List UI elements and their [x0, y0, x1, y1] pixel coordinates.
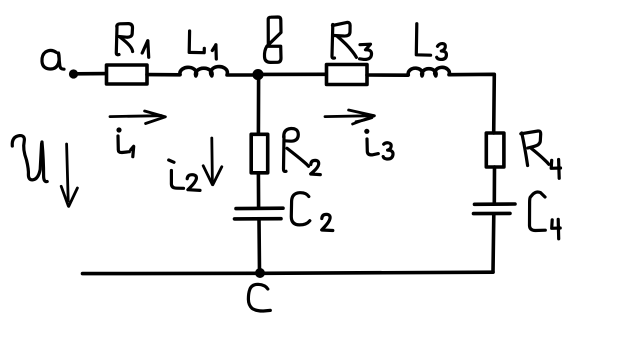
node C — [255, 268, 265, 278]
label R2 — [283, 136, 286, 171]
label L1 — [189, 31, 204, 53]
label L1 subscript 1 — [212, 45, 216, 51]
wire L3 to top right corner — [449, 74, 494, 133]
capacitor C2 — [236, 206, 283, 210]
node b — [252, 69, 263, 80]
label C (node) — [248, 284, 270, 311]
label i1 — [116, 127, 121, 132]
wire C2 to bottom — [257, 219, 261, 272]
label C2 — [291, 193, 310, 225]
resistor R4 — [486, 133, 504, 167]
wire L1 to node b — [227, 73, 254, 77]
wire R3 to L3 — [367, 73, 408, 77]
capacitor C4 — [475, 202, 516, 206]
label i3 — [364, 129, 369, 134]
wire R1 to L1 — [147, 73, 180, 77]
label a — [42, 50, 59, 69]
wire b to R3 — [262, 73, 326, 77]
label C2 subscript 2 — [322, 214, 333, 230]
resistor R2 — [251, 134, 268, 173]
label R3 — [332, 25, 335, 59]
label R1 — [116, 27, 119, 55]
wire b down to R2 — [257, 75, 261, 134]
label b — [264, 17, 281, 62]
label i2 — [169, 160, 174, 162]
inductor L3 — [408, 67, 449, 76]
label L3 — [416, 24, 430, 56]
label R1 subscript 1 — [142, 41, 147, 53]
wire a to R1 — [77, 72, 106, 76]
node a — [69, 69, 78, 78]
label L3 subscript 3 — [437, 44, 447, 60]
bottom wire — [83, 272, 494, 273]
wire R2 to C2 — [257, 173, 261, 208]
label C4 subscript 4 — [552, 220, 561, 229]
resistor R1 — [107, 65, 148, 84]
label C4 — [530, 192, 546, 231]
U arrow — [67, 144, 69, 201]
wire R4 to C4 — [492, 167, 496, 204]
label U — [12, 136, 41, 180]
label R2 subscript 2 — [311, 160, 321, 174]
wire C4 to bottom — [491, 214, 495, 272]
resistor R3 — [327, 65, 368, 85]
i3 arrow — [325, 114, 374, 118]
label R4 subscript 4 — [551, 160, 560, 168]
i1 arrow — [110, 114, 162, 118]
label R4 — [522, 133, 528, 166]
label R3 subscript 3 — [360, 44, 372, 59]
i2 arrow — [210, 138, 213, 184]
inductor L1 — [180, 67, 228, 76]
